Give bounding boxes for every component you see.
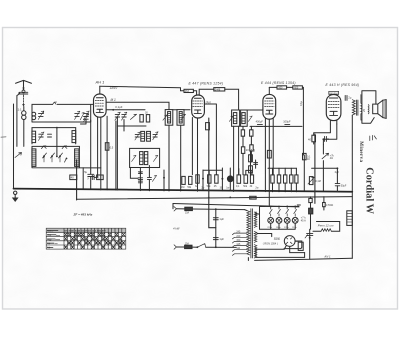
wire avc drop a [242,126,244,174]
wire IF2 drop [233,126,235,191]
power transformer T1 [245,209,257,258]
mains lead 2 [174,242,236,249]
wire IF1 drop b [180,125,182,191]
svg-text:40: 40 [71,176,75,180]
resistor 0.3M [303,153,311,161]
svg-text:500: 500 [278,87,283,90]
antenna coupling coil L1 [22,107,26,147]
smoothing cap node [305,234,313,239]
V2 grid resistor [206,123,210,130]
screen feed resistor E448 [199,88,238,110]
svg-text:1µF: 1µF [219,217,224,221]
heater line [173,204,299,207]
grid resistor network row [182,168,254,191]
wire V2 pin drop a [191,118,193,175]
dial lamp rail [256,205,300,229]
wire IF2 to V3 [247,109,263,111]
V3 grid resistor [267,150,271,158]
junction [112,109,114,111]
svg-text:1:1: 1:1 [18,108,23,112]
bypass wire [322,145,324,191]
coil L8 [147,131,151,141]
coil L7 [141,131,145,141]
anode supply line 185V [100,86,184,91]
cathode line V3 [250,125,302,127]
antenna [16,80,32,90]
svg-text:5µ: 5µ [84,170,87,174]
svg-text:Cordial W: Cordial W [364,167,375,214]
wire V3 pin drops [265,118,273,192]
tube AH1 [94,86,107,117]
resistor M1 on bias bus [250,196,256,200]
antenna series trimmer capacitor [18,90,28,107]
trimmer C2 [75,111,85,120]
coil L2 [32,112,36,120]
svg-text:AH 1: AH 1 [95,80,105,85]
diode load caps [256,125,266,127]
capacitor 5u [84,120,94,189]
ground [12,191,19,202]
bottom return line [255,229,310,260]
svg-text:E448: E448 [215,88,221,91]
coil L5 [32,149,36,167]
lamp dropper resistors [268,168,298,192]
svg-text:4 kW: 4 kW [173,226,180,230]
lamp return rail [260,223,296,229]
svg-text:0,5: 0,5 [110,146,114,150]
band switch S1 arm [15,153,22,158]
output transformer secondary coil [361,103,362,114]
anode resistor 600 [287,86,303,90]
wire avc drop b [250,126,252,162]
svg-text:0,1M: 0,1M [315,180,320,183]
lamp voltage labels [267,227,297,229]
resistor 25 [250,145,253,151]
resistor 30a [140,115,143,122]
voltage table [46,228,126,249]
HT wire thick [314,134,316,203]
svg-text:+7 k45 A: +7 k45 A [301,217,307,223]
wire far right drop [351,115,353,258]
svg-text:15A: 15A [185,242,190,245]
svg-text:E 443 H (RES 964): E 443 H (RES 964) [326,83,360,87]
svg-text:M1Ω: M1Ω [250,198,255,200]
svg-text:100µF: 100µF [283,120,291,124]
AVC divider resistors [249,151,253,176]
earth lead wire [17,94,19,146]
trimmer C4 [38,132,44,141]
resistor 263 [184,89,193,93]
label row values [181,185,259,190]
input bandfilter row 2 frame [32,127,76,158]
IF transformer 2 can [229,110,252,126]
wire V1 pin drop [100,117,102,190]
svg-text:ZF = 483 kHz: ZF = 483 kHz [73,212,93,216]
svg-text:15A: 15A [185,211,190,214]
wire to V2 top [193,91,196,95]
table header text [47,229,107,249]
dial lamp La2 [276,218,282,224]
svg-text:E 447 (RENS 1254): E 447 (RENS 1254) [189,82,224,86]
junction dots on buses [100,189,338,199]
svg-text:2w: 2w [201,186,204,189]
svg-text:AH1 E447 E444 E443H 506 AL4 AB: AH1 E447 E444 E443H 506 AL4 AB2 AF7 [64,229,106,232]
coupling line down [302,87,303,155]
grid line [107,109,145,111]
small box right of band block [130,168,138,179]
trimmer C3 [84,111,90,120]
speaker frame wires [362,91,376,124]
margin pencil mark [1,136,6,138]
svg-text:50µF: 50µF [341,184,347,187]
svg-text:2w: 2w [255,186,258,189]
wire V2 pin drop c [209,118,216,228]
svg-text:E 444 (RENS 1354): E 444 (RENS 1354) [261,81,296,85]
svg-text:506: 506 [274,237,280,241]
main ground bus [14,189,353,192]
switch arm middle [130,114,136,119]
svg-text:400µF: 400µF [256,120,264,124]
wire IF1 drop a [168,125,170,191]
input bandfilter row 1 frame [32,102,94,122]
tube V4 E443H output [326,91,341,124]
cathode cap 0.5 [87,174,103,180]
wire V1 cathode drop [97,117,99,174]
svg-text:AN 1: AN 1 [323,254,331,258]
wire row3 to bus [82,168,84,189]
bottom right return [310,258,353,259]
resistor 0.5 grid leak [105,143,113,151]
band switch contacts [43,153,68,162]
wire det drop [238,126,240,174]
capacitor 100uF [283,120,291,127]
loudspeaker [373,100,387,119]
resistor 40 box left [70,175,77,180]
svg-text:0,1µ: 0,1µ [299,100,303,106]
screen line M1 [106,102,169,109]
coil L4 [72,131,76,143]
mains filter caps 1uF [213,208,224,248]
AVC coupling cap [254,160,258,168]
rectifier tube V5 [284,236,295,247]
AVC resistor 4.5 [241,130,255,153]
transformer bottom stub [247,258,249,261]
lower row frame [117,120,146,132]
enclosure bottom [256,248,305,257]
svg-text:1M: 1M [181,186,184,189]
dial lamp La3 [284,218,290,224]
feedback line 2uF [312,167,340,173]
svg-text:3w: 3w [195,185,198,188]
dial lamp La1 [268,218,274,224]
field coil Perm [313,222,340,232]
rectifier wiring [257,234,305,253]
svg-text:1700Ω: 1700Ω [326,204,333,207]
bias bus [77,197,353,200]
tube V3 E444 [263,87,276,119]
wire V1 grid-leak drop [106,116,108,190]
wire V2 pin drop b [197,118,199,191]
capacitor arrow C8 [135,132,140,140]
dial lamp La4 [292,217,298,223]
capacitor arrow C9 [153,132,158,140]
jack contact marks [370,135,377,140]
resistor 30b [145,112,150,122]
wave switch arm [41,146,46,149]
resistor 20 [241,147,249,154]
trimmer C6 [115,112,120,126]
cathode resistor 40 [308,135,316,142]
trimmer left of V1 [81,114,89,124]
volume pot 0.1M [308,177,321,185]
transformer taps [232,232,246,256]
lamp switches [269,206,296,216]
svg-text:0,1µF: 0,1µF [115,105,122,109]
padder C5 [48,134,52,137]
right block feed wire [303,155,305,190]
output transformer core [356,100,358,115]
capacitor 400uF [256,120,264,127]
svg-text:1w: 1w [226,186,229,189]
cap 50uF [335,168,347,191]
anode resistor 500 [269,86,286,90]
coil L6 [75,149,79,167]
cathode bypass cap [325,136,330,141]
output transformer primary zigzag [352,100,355,115]
wire V2 right drop [205,104,217,175]
grid coupling cap 2uF [345,95,352,100]
wire 117.9 drop [116,126,118,190]
voice coil [367,105,370,114]
IF transformer 1 can [163,110,190,126]
heater stub [172,204,174,209]
trimmer C7 [122,112,127,120]
cathode net wires [314,124,337,145]
mains lead 1 [174,207,245,215]
svg-text:M 1: M 1 [111,98,117,102]
filter cap box [298,242,304,257]
svg-text:2µ: 2µ [348,95,351,99]
oscillator coil assembly [130,148,160,167]
screen dropper wire [76,160,78,200]
svg-text:( RGN 1054 ): ( RGN 1054 ) [263,242,278,245]
dropper resistor 1700 [309,197,334,230]
pickup connector [347,211,353,226]
trimmer C1 [38,111,44,120]
svg-text:600: 600 [294,87,299,90]
wire 115.9 drop [115,121,117,190]
svg-text:Minerva: Minerva [358,141,363,162]
V3 heater drop [268,168,270,205]
tube V2 E447 [192,95,205,118]
table X marks [64,233,124,249]
svg-text:1µF: 1µF [219,237,224,241]
svg-text:263: 263 [185,90,190,93]
svg-text:Perm 12 cm: Perm 12 cm [318,223,334,227]
oscillator row 3 frame [32,146,101,168]
coil L3 [32,131,36,142]
tone switch [322,153,335,160]
padder caps below oscillator [138,166,165,191]
ground lead wire [13,104,15,189]
